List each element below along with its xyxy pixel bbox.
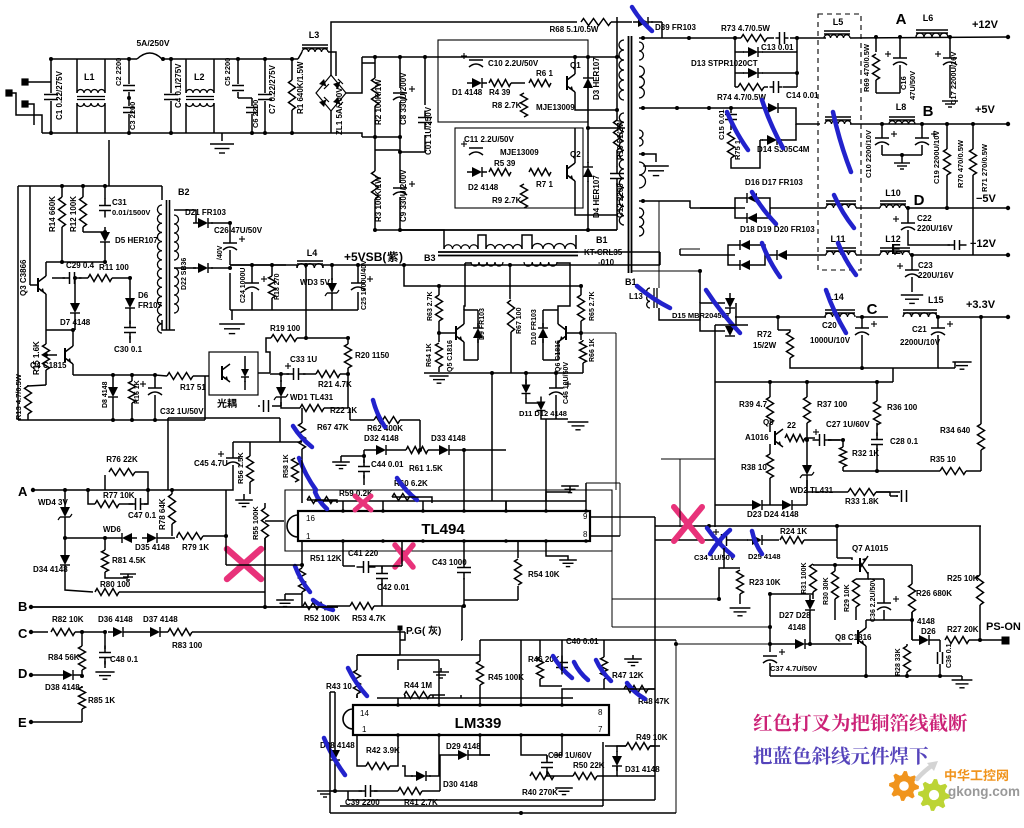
svg-text:D32 4148: D32 4148 [364, 434, 399, 443]
svg-text:gkong.com: gkong.com [948, 784, 1020, 799]
svg-text:D13 STPR1020CT: D13 STPR1020CT [691, 59, 758, 68]
svg-text:C21: C21 [912, 325, 927, 334]
svg-text:7: 7 [598, 725, 603, 734]
svg-text:C5 2200: C5 2200 [223, 58, 232, 86]
svg-text:LM339: LM339 [455, 715, 502, 732]
svg-text:R51 12K: R51 12K [310, 554, 342, 563]
svg-text:4148: 4148 [788, 623, 806, 632]
svg-text:D26: D26 [921, 627, 936, 636]
svg-text:ZL1 5A/700V: ZL1 5A/700V [335, 87, 344, 135]
svg-text:D3 HER107: D3 HER107 [592, 57, 601, 100]
svg-text:R56 1.5K: R56 1.5K [236, 452, 245, 484]
svg-text:D9 FR103: D9 FR103 [479, 308, 486, 340]
svg-text:+3.3V: +3.3V [966, 299, 996, 311]
svg-text:R8 2.7K: R8 2.7K [492, 101, 522, 110]
svg-text:C7 0.22/275V: C7 0.22/275V [268, 64, 277, 114]
svg-text:Q6 C1816: Q6 C1816 [555, 340, 562, 372]
svg-text:L4: L4 [307, 248, 318, 258]
svg-text:D10 FR103: D10 FR103 [531, 309, 538, 345]
svg-text:5A/250V: 5A/250V [136, 38, 169, 48]
svg-text:WD2 TL431: WD2 TL431 [790, 486, 834, 495]
svg-text:22: 22 [787, 421, 796, 430]
svg-text:220U/16V: 220U/16V [918, 271, 954, 280]
svg-text:R67 47K: R67 47K [317, 423, 349, 432]
svg-text:C6 2200: C6 2200 [251, 100, 260, 128]
svg-text:C1 0.22/275V: C1 0.22/275V [55, 70, 64, 120]
svg-text:WD4 3V: WD4 3V [38, 498, 68, 507]
svg-text:L8: L8 [896, 102, 907, 112]
svg-text:/40V: /40V [217, 245, 224, 260]
svg-text:R68 5.1/0.5W: R68 5.1/0.5W [550, 25, 599, 34]
svg-text:R1 640K/1.5W: R1 640K/1.5W [296, 61, 305, 114]
svg-text:15/2W: 15/2W [753, 341, 777, 350]
svg-text:C: C [867, 301, 878, 318]
svg-text:R45 100K: R45 100K [488, 673, 524, 682]
svg-text:R31 100K: R31 100K [801, 562, 808, 594]
svg-text:C41 220: C41 220 [348, 549, 379, 558]
svg-text:P.G(: P.G( [406, 626, 426, 637]
svg-text:D5 HER107: D5 HER107 [115, 236, 158, 245]
svg-text:B2: B2 [178, 187, 190, 197]
svg-text:2200U/10V: 2200U/10V [900, 338, 941, 347]
svg-text:D: D [914, 192, 925, 209]
svg-text:R2 100K/1W: R2 100K/1W [374, 79, 383, 125]
svg-text:D2 4148: D2 4148 [468, 183, 499, 192]
svg-text:C3 2200: C3 2200 [128, 102, 137, 130]
svg-text:L1: L1 [84, 72, 95, 82]
svg-text:8: 8 [583, 530, 588, 539]
svg-text:D23 D24 4148: D23 D24 4148 [747, 510, 799, 519]
svg-text:R25 10K: R25 10K [947, 574, 979, 583]
svg-text:FR107: FR107 [138, 301, 163, 310]
svg-text:L15: L15 [928, 295, 944, 305]
svg-text:Q3 C3866: Q3 C3866 [19, 259, 28, 296]
svg-text:C13 0.01: C13 0.01 [761, 43, 794, 52]
svg-text:R52 100K: R52 100K [304, 614, 340, 623]
svg-text:0.01/1500V: 0.01/1500V [112, 208, 150, 217]
svg-text:B: B [18, 599, 27, 614]
svg-text:R79 1K: R79 1K [182, 543, 209, 552]
svg-text:−12V: −12V [970, 238, 997, 250]
svg-text:+5V: +5V [975, 104, 996, 116]
svg-text:C20: C20 [822, 321, 837, 330]
svg-text:A1016: A1016 [745, 433, 769, 442]
svg-text:C: C [18, 626, 28, 641]
svg-text:WD6: WD6 [103, 525, 121, 534]
svg-text:E: E [18, 715, 27, 730]
svg-text:C29 0.4: C29 0.4 [66, 261, 95, 270]
svg-text:R53 4.7K: R53 4.7K [352, 614, 386, 623]
svg-text:8: 8 [598, 708, 603, 717]
svg-text:R61 1.5K: R61 1.5K [409, 464, 443, 473]
svg-text:D: D [18, 666, 27, 681]
svg-text:D38 4148: D38 4148 [45, 683, 80, 692]
svg-text:D22 SB36: D22 SB36 [181, 258, 188, 290]
svg-text:16: 16 [306, 514, 315, 523]
svg-text:C32 1U/50V: C32 1U/50V [160, 407, 204, 416]
svg-text:TL494: TL494 [421, 521, 465, 538]
svg-text:C33 1U: C33 1U [290, 355, 317, 364]
svg-text:R70 470/0.5W: R70 470/0.5W [956, 139, 965, 188]
svg-text:R63 2.7K: R63 2.7K [427, 291, 434, 321]
svg-text:220U/16V: 220U/16V [917, 224, 953, 233]
svg-text:R26 680K: R26 680K [916, 589, 952, 598]
svg-text:R36 100: R36 100 [887, 403, 918, 412]
svg-text:D16 D17 FR103: D16 D17 FR103 [745, 178, 803, 187]
svg-text:R77 10K: R77 10K [103, 491, 135, 500]
svg-text:R65 2.7K: R65 2.7K [589, 291, 596, 321]
svg-text:R15 1.6K: R15 1.6K [32, 341, 41, 375]
svg-text:R49 10K: R49 10K [636, 733, 668, 742]
svg-text:MJE13009: MJE13009 [500, 148, 539, 157]
svg-text:R66 1K: R66 1K [589, 338, 596, 362]
svg-text:Q8 C1816: Q8 C1816 [835, 633, 872, 642]
svg-text:D33 4148: D33 4148 [431, 434, 466, 443]
svg-text:R43 10: R43 10 [326, 682, 352, 691]
svg-text:C26 47U/50V: C26 47U/50V [214, 226, 263, 235]
svg-text:R34 640: R34 640 [940, 426, 971, 435]
svg-text:1: 1 [362, 725, 367, 734]
svg-text:C15 0.01: C15 0.01 [717, 110, 726, 140]
svg-text:Q7 A1015: Q7 A1015 [852, 544, 889, 553]
svg-text:C14 0.01: C14 0.01 [786, 91, 819, 100]
svg-text:R18 270: R18 270 [274, 273, 281, 300]
svg-text:4148: 4148 [917, 617, 935, 626]
svg-text:R44 1M: R44 1M [404, 681, 432, 690]
svg-text:D18 D19 D20 FR103: D18 D19 D20 FR103 [740, 225, 815, 234]
svg-text:R19 100: R19 100 [270, 324, 301, 333]
svg-text:C27 1U/60V: C27 1U/60V [826, 420, 870, 429]
svg-text:R9 2.7K: R9 2.7K [492, 196, 522, 205]
svg-text:R32 1K: R32 1K [852, 449, 879, 458]
svg-text:R82 10K: R82 10K [52, 615, 84, 624]
svg-text:R24 1K: R24 1K [780, 527, 807, 536]
svg-text:R84 56K: R84 56K [48, 653, 80, 662]
svg-text:D36 4148: D36 4148 [98, 615, 133, 624]
svg-text:D1 4148: D1 4148 [452, 88, 483, 97]
svg-text:WD3 5V: WD3 5V [300, 278, 330, 287]
svg-text:C45 4.7U: C45 4.7U [194, 459, 228, 468]
svg-text:R11 100: R11 100 [99, 263, 129, 272]
svg-text:R72: R72 [757, 330, 772, 339]
svg-text:R17 51: R17 51 [180, 383, 206, 392]
svg-text:D29 4148: D29 4148 [446, 742, 481, 751]
svg-text:R3 100K/1W: R3 100K/1W [374, 176, 383, 222]
svg-text:R27 20K: R27 20K [947, 625, 979, 634]
svg-text:C24 1000U: C24 1000U [240, 268, 247, 303]
svg-text:C47 0.1: C47 0.1 [128, 511, 157, 520]
svg-text:R33 1.8K: R33 1.8K [845, 497, 879, 506]
svg-text:14: 14 [360, 709, 369, 718]
svg-text:D37 4148: D37 4148 [143, 615, 178, 624]
svg-text:R80 100: R80 100 [100, 580, 131, 589]
svg-text:R23 10K: R23 10K [749, 578, 781, 587]
svg-text:C44 0.01: C44 0.01 [371, 460, 404, 469]
svg-text:R6 1: R6 1 [536, 69, 553, 78]
svg-text:D25 4148: D25 4148 [748, 552, 781, 561]
svg-text:B1: B1 [625, 277, 637, 287]
svg-text:B3: B3 [424, 253, 436, 263]
svg-text:B1: B1 [596, 235, 608, 245]
svg-text:WD1 TL431: WD1 TL431 [290, 393, 334, 402]
svg-text:L13: L13 [629, 292, 643, 301]
svg-text:R29 10K: R29 10K [844, 584, 851, 612]
svg-text:R78 64K: R78 64K [158, 498, 167, 530]
svg-text:L3: L3 [309, 30, 320, 40]
svg-text:PS-ON: PS-ON [986, 621, 1021, 633]
svg-text:R76 22K: R76 22K [106, 455, 138, 464]
svg-text:C10 2200/10V: C10 2200/10V [864, 130, 873, 178]
svg-text:R4 39: R4 39 [489, 88, 511, 97]
svg-text:C40 0.01: C40 0.01 [566, 637, 599, 646]
svg-text:C28 0.1: C28 0.1 [890, 437, 919, 446]
svg-text:D27 D28: D27 D28 [779, 611, 811, 620]
svg-text:R14 660K: R14 660K [48, 196, 57, 232]
svg-text:Q5 C1816: Q5 C1816 [447, 340, 454, 372]
svg-text:+5VSB(: +5VSB( [344, 250, 386, 264]
svg-text:L10: L10 [885, 188, 901, 198]
svg-text:R37 100: R37 100 [817, 400, 848, 409]
svg-text:R21 4.7K: R21 4.7K [318, 380, 352, 389]
svg-text:C19 2200U/10V: C19 2200U/10V [932, 131, 941, 184]
svg-text:R42 3.9K: R42 3.9K [366, 746, 400, 755]
svg-text:R64 1K: R64 1K [426, 343, 433, 367]
svg-text:C10 2.2U/50V: C10 2.2U/50V [488, 59, 539, 68]
svg-text:1000U/10V: 1000U/10V [810, 336, 851, 345]
svg-text:C9 330U/200V: C9 330U/200V [399, 169, 408, 222]
svg-text:): ) [399, 250, 403, 264]
svg-text:R35 10: R35 10 [930, 455, 956, 464]
svg-text:C43 1000: C43 1000 [432, 558, 467, 567]
svg-text:R73 4.7/0.5W: R73 4.7/0.5W [721, 24, 770, 33]
svg-text:47U/50V: 47U/50V [908, 71, 917, 100]
svg-text:R30 30K: R30 30K [823, 577, 830, 605]
svg-text:R55 100K: R55 100K [251, 506, 260, 540]
svg-text:+12V: +12V [972, 19, 999, 31]
svg-text:R83 100: R83 100 [172, 641, 203, 650]
svg-text:R39 4.7: R39 4.7 [739, 400, 768, 409]
svg-text:D21 FR103: D21 FR103 [185, 208, 226, 217]
svg-text:C8 330U/200V: C8 330U/200V [399, 72, 408, 125]
svg-text:A: A [896, 11, 907, 28]
svg-text:R40 270K: R40 270K [522, 788, 558, 797]
svg-text:D8 4148: D8 4148 [102, 381, 109, 408]
svg-text:R50 22K: R50 22K [573, 761, 605, 770]
svg-text:C11 2.2U/50V: C11 2.2U/50V [464, 135, 514, 144]
svg-text:R28 33K: R28 33K [895, 648, 902, 676]
svg-text:C4 0.1/275V: C4 0.1/275V [174, 63, 183, 108]
svg-text:R85 1K: R85 1K [88, 696, 115, 705]
svg-text:R69 470/0.5W: R69 470/0.5W [862, 43, 871, 92]
svg-text:R5 39: R5 39 [494, 159, 516, 168]
svg-text:R58 1K: R58 1K [283, 454, 290, 478]
svg-text:C37 4.7U/50V: C37 4.7U/50V [770, 664, 817, 673]
svg-text:R38 10: R38 10 [741, 463, 767, 472]
svg-text:D35 4148: D35 4148 [135, 543, 170, 552]
svg-text:C23: C23 [918, 261, 933, 270]
svg-text:C25 1000U/40V: C25 1000U/40V [361, 260, 368, 310]
svg-text:C46 10U/50V: C46 10U/50V [563, 362, 570, 404]
svg-text:A: A [18, 484, 28, 499]
svg-text:D30 4148: D30 4148 [443, 780, 478, 789]
svg-text:R20 1150: R20 1150 [355, 351, 390, 360]
svg-text:R74 4.7/0.5W: R74 4.7/0.5W [717, 93, 766, 102]
svg-text:Q9: Q9 [763, 418, 774, 427]
svg-text:D6: D6 [138, 291, 149, 300]
svg-text:D39 FR103: D39 FR103 [655, 23, 696, 32]
svg-text:R81 4.5K: R81 4.5K [112, 556, 146, 565]
svg-text:MJE13009: MJE13009 [536, 103, 575, 112]
svg-text:C22: C22 [917, 214, 932, 223]
svg-text:L6: L6 [923, 13, 934, 23]
svg-text:R12 100K: R12 100K [69, 196, 78, 232]
svg-text:): ) [438, 626, 441, 637]
svg-text:R54 10K: R54 10K [528, 570, 560, 579]
svg-text:R47 12K: R47 12K [612, 671, 644, 680]
svg-text:L2: L2 [194, 72, 205, 82]
svg-text:C48 0.1: C48 0.1 [110, 655, 139, 664]
svg-text:9: 9 [583, 512, 588, 521]
svg-text:L5: L5 [833, 17, 844, 27]
svg-text:D34 4148: D34 4148 [33, 565, 68, 574]
svg-text:R67 100: R67 100 [516, 307, 523, 334]
svg-text:C30 0.1: C30 0.1 [114, 345, 143, 354]
svg-text:B: B [923, 103, 934, 120]
svg-text:D4 HER107: D4 HER107 [592, 175, 601, 218]
svg-text:1: 1 [306, 532, 311, 541]
svg-text:C31: C31 [112, 198, 127, 207]
svg-text:−5V: −5V [976, 193, 997, 205]
svg-text:C2 2200: C2 2200 [114, 58, 123, 86]
svg-text:C36 0.1: C36 0.1 [946, 643, 953, 668]
svg-text:R16 1K: R16 1K [134, 380, 141, 404]
svg-text:R13 4.7/0.5W: R13 4.7/0.5W [14, 373, 23, 420]
svg-text:C36 2.2U/50V: C36 2.2U/50V [870, 578, 877, 622]
svg-text:E: E [891, 241, 901, 258]
svg-text:D11 D12 4148: D11 D12 4148 [519, 409, 567, 418]
svg-text:R71 270/0.5W: R71 270/0.5W [980, 143, 989, 192]
svg-text:R7 1: R7 1 [536, 180, 553, 189]
